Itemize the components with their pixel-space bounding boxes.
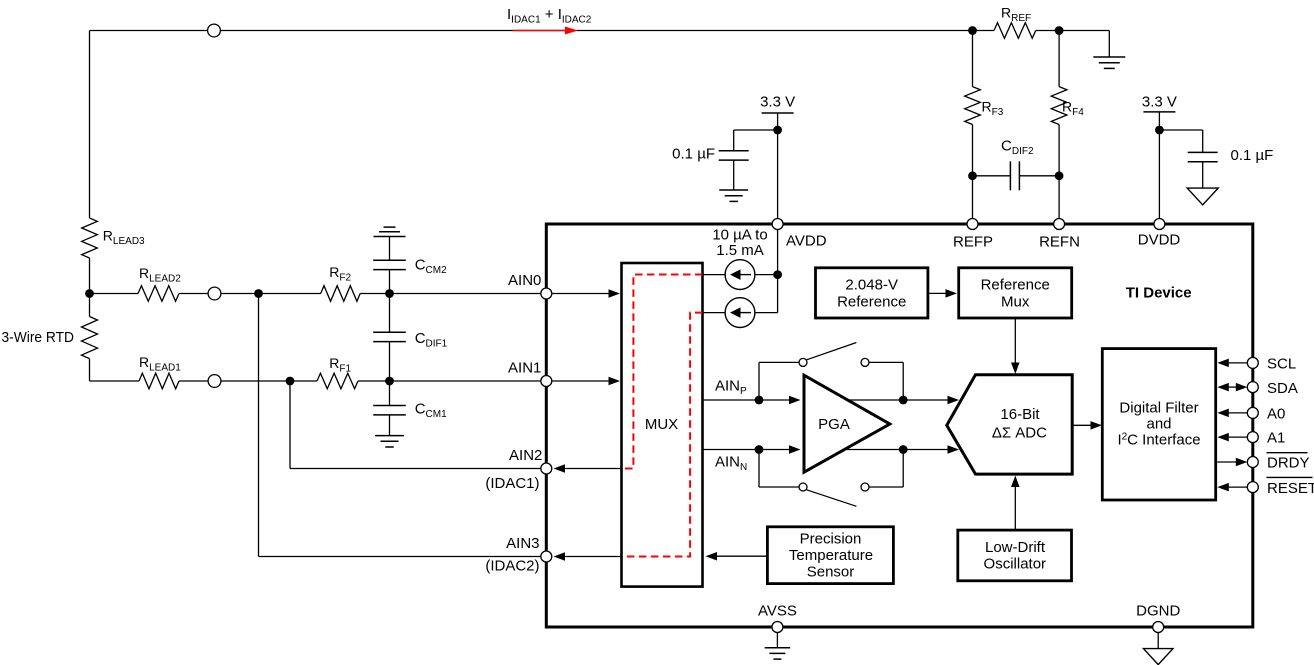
svg-text:MUX: MUX <box>645 416 678 433</box>
svg-text:10 µA to: 10 µA to <box>712 227 767 244</box>
svg-text:2.048-V: 2.048-V <box>845 276 898 293</box>
svg-text:SDA: SDA <box>1267 380 1298 397</box>
svg-text:DGND: DGND <box>1136 603 1180 620</box>
svg-text:DVDD: DVDD <box>1138 232 1181 249</box>
svg-text:Precision: Precision <box>800 530 862 547</box>
svg-text:(IDAC2): (IDAC2) <box>485 558 539 575</box>
svg-text:3.3 V: 3.3 V <box>1142 94 1177 111</box>
svg-text:(IDAC1): (IDAC1) <box>485 475 539 492</box>
svg-text:0.1 µF: 0.1 µF <box>672 146 715 163</box>
svg-text:DRDY: DRDY <box>1267 455 1310 472</box>
svg-text:ΔΣ ADC: ΔΣ ADC <box>992 424 1047 441</box>
svg-text:Reference: Reference <box>837 294 906 311</box>
svg-text:REFP: REFP <box>953 234 993 251</box>
svg-text:AVSS: AVSS <box>758 603 797 620</box>
svg-text:and: and <box>1146 415 1171 432</box>
svg-text:AVDD: AVDD <box>786 233 827 250</box>
svg-text:I2C Interface: I2C Interface <box>1117 431 1200 448</box>
svg-text:Low-Drift: Low-Drift <box>985 539 1046 556</box>
svg-text:Reference: Reference <box>981 276 1050 293</box>
svg-text:TI Device: TI Device <box>1126 285 1192 302</box>
svg-text:REFN: REFN <box>1039 234 1080 251</box>
svg-text:Mux: Mux <box>1001 294 1030 311</box>
svg-text:SCL: SCL <box>1267 356 1296 373</box>
svg-text:0.1 µF: 0.1 µF <box>1231 147 1274 164</box>
svg-text:Oscillator: Oscillator <box>984 555 1047 572</box>
svg-text:Sensor: Sensor <box>807 564 855 581</box>
svg-text:AIN1: AIN1 <box>508 360 541 377</box>
svg-text:A1: A1 <box>1267 430 1285 447</box>
svg-text:16-Bit: 16-Bit <box>1000 406 1040 423</box>
svg-text:AIN3: AIN3 <box>506 535 539 552</box>
svg-text:AIN0: AIN0 <box>508 272 541 289</box>
svg-text:3-Wire RTD: 3-Wire RTD <box>2 329 75 346</box>
svg-text:RESET: RESET <box>1267 480 1314 497</box>
svg-text:AIN2: AIN2 <box>509 447 542 464</box>
svg-text:A0: A0 <box>1267 405 1285 422</box>
svg-text:1.5 mA: 1.5 mA <box>716 242 764 259</box>
svg-text:3.3 V: 3.3 V <box>760 94 795 111</box>
svg-text:Digital Filter: Digital Filter <box>1119 400 1198 417</box>
svg-text:Temperature: Temperature <box>789 547 873 564</box>
svg-text:PGA: PGA <box>818 416 850 433</box>
